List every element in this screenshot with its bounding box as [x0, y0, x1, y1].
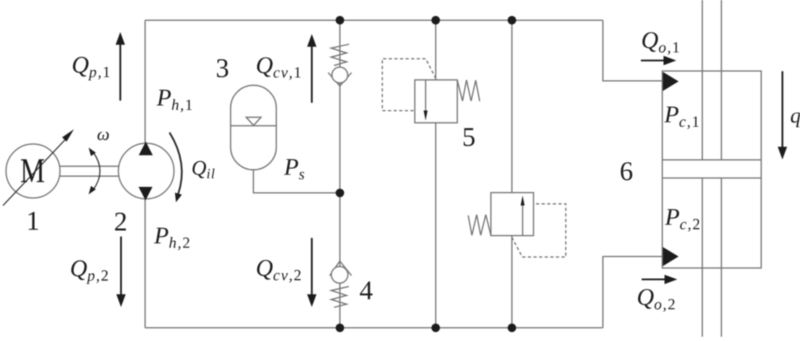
pump 2 circle — [118, 143, 174, 199]
lower relief valve spring — [468, 215, 491, 236]
label 3 — [217, 59, 228, 77]
pump top triangle — [139, 142, 153, 156]
wire top bus — [145, 19, 603, 21]
accumulator separator line — [231, 125, 277, 127]
node junction bottom check valve branch — [336, 324, 345, 333]
node junction top relief valve 5 branch — [431, 16, 440, 25]
wire right lower step to cylinder port 2 — [603, 257, 663, 328]
arrow Qo1 right — [641, 60, 667, 62]
lower relief valve body — [491, 193, 534, 236]
wire relief valve 5 branch vertical — [435, 20, 437, 328]
check valve C4 ball — [331, 267, 348, 284]
relief valve 5 pilot dashed line — [382, 59, 436, 111]
arrow Qcv1 up — [311, 44, 313, 103]
arrow Qcv2 down — [311, 238, 313, 297]
label Ph1 — [157, 90, 192, 113]
arrow Qp2 down — [120, 237, 122, 298]
Qil flow arc — [170, 133, 182, 195]
node junction top lower relief valve branch — [508, 16, 517, 25]
label 5 — [464, 128, 475, 146]
wire bottom bus — [145, 327, 603, 329]
motor variable-displacement diagonal arrow — [3, 139, 66, 206]
label 2 — [115, 213, 126, 231]
node junction bottom lower relief valve branch — [508, 324, 517, 333]
wire lower relief valve branch vertical — [511, 20, 513, 328]
wire left riser upper — [144, 20, 146, 144]
label q — [791, 113, 800, 128]
cylinder rod lower — [702, 178, 721, 337]
wire left riser lower — [144, 198, 146, 328]
cylinder rod upper — [702, 0, 721, 160]
check valve C1 spring — [331, 44, 349, 65]
label 6 — [621, 162, 633, 180]
label Qil — [193, 161, 215, 178]
node Ps junction — [336, 189, 345, 198]
lower relief valve internal flow arrow — [522, 204, 524, 236]
label Qcv2 — [257, 260, 301, 283]
label 4 — [360, 282, 373, 300]
relief valve 5 body — [415, 80, 458, 123]
label omega — [98, 132, 109, 141]
cylinder port 2 triangle — [663, 247, 679, 266]
label Qp2 — [71, 260, 108, 284]
label Ps — [284, 159, 304, 179]
wire accumulator outlet to node Ps — [253, 170, 340, 193]
node junction bottom relief valve 5 branch — [431, 324, 440, 333]
label 1 — [29, 212, 38, 230]
check valve C4 spring — [331, 287, 349, 308]
arrow Qp1 up — [119, 42, 121, 101]
cylinder port 1 triangle — [663, 72, 679, 91]
cylinder piston lines — [662, 160, 761, 178]
label Qp1 — [73, 57, 110, 81]
relief valve 5 spring — [457, 80, 479, 101]
wire check-valve branch vertical — [339, 20, 341, 328]
wire right upper step to cylinder port 1 — [603, 20, 663, 81]
pump bottom triangle — [139, 187, 153, 201]
label Qo1 — [642, 32, 679, 55]
label Pc1 — [664, 107, 698, 130]
label Ph2 — [154, 228, 189, 251]
shaft between motor and pump — [60, 166, 121, 176]
motor 1 circle — [6, 144, 60, 198]
omega rotation arc — [93, 152, 100, 190]
lower relief valve pilot dashed line — [512, 204, 566, 257]
accumulator gas triangle — [246, 117, 261, 125]
arrow Qo2 right — [642, 278, 668, 280]
check valve C4 seat — [330, 261, 352, 276]
check valve C1 seat — [328, 73, 351, 86]
check valve C1 ball — [332, 67, 348, 83]
cylinder 6 body — [662, 71, 761, 268]
label Qcv1 — [257, 57, 301, 80]
accumulator 3 shell — [231, 85, 277, 170]
label M motor — [21, 159, 44, 182]
label Pc2 — [665, 209, 699, 232]
label Qo2 — [638, 289, 675, 312]
node junction top check valve branch — [336, 16, 345, 25]
arrow q down — [781, 71, 783, 149]
relief valve 5 internal flow arrow — [425, 80, 427, 112]
